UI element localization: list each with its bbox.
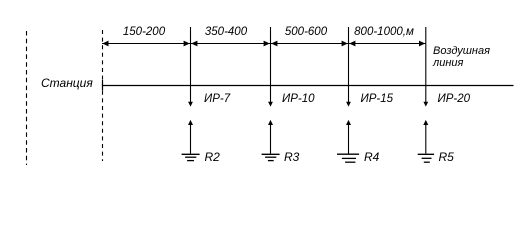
ground lead 3 wire: [348, 122, 350, 154]
svg-text:R2: R2: [205, 150, 221, 164]
svg-text:Воздушная: Воздушная: [433, 45, 490, 57]
arrester tap wire 1 arrowhead: [188, 102, 193, 107]
arrester tap wire 4: [425, 27, 427, 103]
svg-text:линия: линия: [432, 57, 463, 69]
arrester tap wire 3: [348, 27, 350, 103]
dimension arrowheads at x=348: [342, 41, 348, 47]
ground lead 2 wire: [270, 122, 272, 154]
svg-text:350-400: 350-400: [205, 26, 248, 38]
svg-text:ИР-10: ИР-10: [282, 93, 315, 105]
station output dashed line: [102, 30, 104, 161]
dimension arrowhead right end: [419, 41, 425, 47]
arrester tap wire 2: [270, 27, 272, 103]
svg-text:800-1000,м: 800-1000,м: [354, 26, 414, 38]
svg-text:ИР-15: ИР-15: [361, 93, 394, 105]
ground lead 1 up arrowhead: [188, 120, 193, 125]
svg-text:ИР-7: ИР-7: [204, 93, 231, 105]
svg-text:R4: R4: [364, 150, 380, 164]
svg-text:R3: R3: [284, 150, 300, 164]
dimension arrowhead left end: [102, 41, 108, 47]
svg-text:R5: R5: [439, 150, 455, 164]
ground lead 4 wire: [425, 122, 427, 154]
ground symbol 2: [262, 153, 280, 155]
ground lead 3 up arrowhead: [346, 120, 351, 125]
dimension arrowheads at x=190: [184, 41, 190, 47]
ground symbol 4: [418, 153, 434, 155]
arrester tap wire 4 arrowhead: [423, 102, 428, 107]
overhead line (main wire): [102, 85, 514, 87]
arrester tap wire 1: [190, 27, 192, 103]
svg-text:Станция: Станция: [41, 76, 93, 90]
svg-text:150-200: 150-200: [123, 26, 166, 38]
svg-text:ИР-20: ИР-20: [438, 93, 471, 105]
arrester tap wire 3 arrowhead: [346, 102, 351, 107]
ground lead 4 up arrowhead: [423, 120, 428, 125]
dimension line: [102, 43, 426, 45]
ground symbol 1: [182, 153, 200, 155]
svg-text:500-600: 500-600: [285, 26, 328, 38]
dimension arrowheads at x=270: [264, 41, 270, 47]
station boundary dashed line (left): [26, 31, 28, 165]
arrester tap wire 2 arrowhead: [268, 102, 273, 107]
ground lead 1 wire: [190, 122, 192, 154]
left end tick of overhead line: [102, 80, 104, 91]
ground symbol 3: [337, 153, 359, 155]
ground lead 2 up arrowhead: [268, 120, 273, 125]
